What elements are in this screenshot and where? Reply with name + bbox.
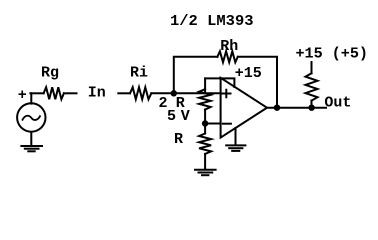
svg-text:+15 (+5): +15 (+5)	[296, 46, 369, 63]
svg-text:Ri: Ri	[130, 65, 148, 82]
svg-text:1/2 LM393: 1/2 LM393	[170, 13, 254, 30]
svg-text:Out: Out	[324, 94, 351, 111]
svg-text:In: In	[88, 84, 106, 101]
svg-text:+15: +15	[235, 65, 262, 82]
svg-text:5: 5	[167, 108, 176, 125]
svg-text:Rh: Rh	[220, 38, 238, 55]
svg-text:+: +	[18, 87, 27, 104]
svg-text:V: V	[181, 108, 190, 125]
svg-text:Rg: Rg	[41, 65, 59, 82]
svg-text:R: R	[174, 131, 183, 148]
